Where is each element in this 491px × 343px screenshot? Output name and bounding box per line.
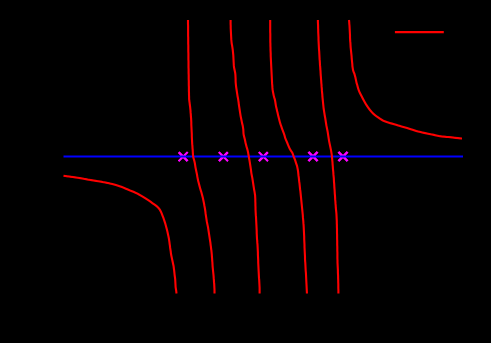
- legend red line sample: [395, 31, 444, 33]
- red curve branch 2: [188, 20, 215, 294]
- pole marker X5 at x=343.0: [338, 152, 347, 161]
- pole marker X4 at x=313.0: [308, 152, 317, 161]
- red curve branch 3: [231, 20, 260, 294]
- pole marker X1 at x=183.2: [179, 152, 188, 161]
- red curve branch 5: [318, 20, 339, 294]
- blue horizontal zero line: [64, 156, 464, 158]
- red curve branch 4: [270, 20, 307, 294]
- red curve branch 1 (lower left): [64, 176, 177, 294]
- red curve branch 6 (upper right): [349, 20, 462, 139]
- pole marker X2 at x=223.3: [219, 152, 228, 161]
- pole marker X3 at x=263.3: [259, 152, 268, 161]
